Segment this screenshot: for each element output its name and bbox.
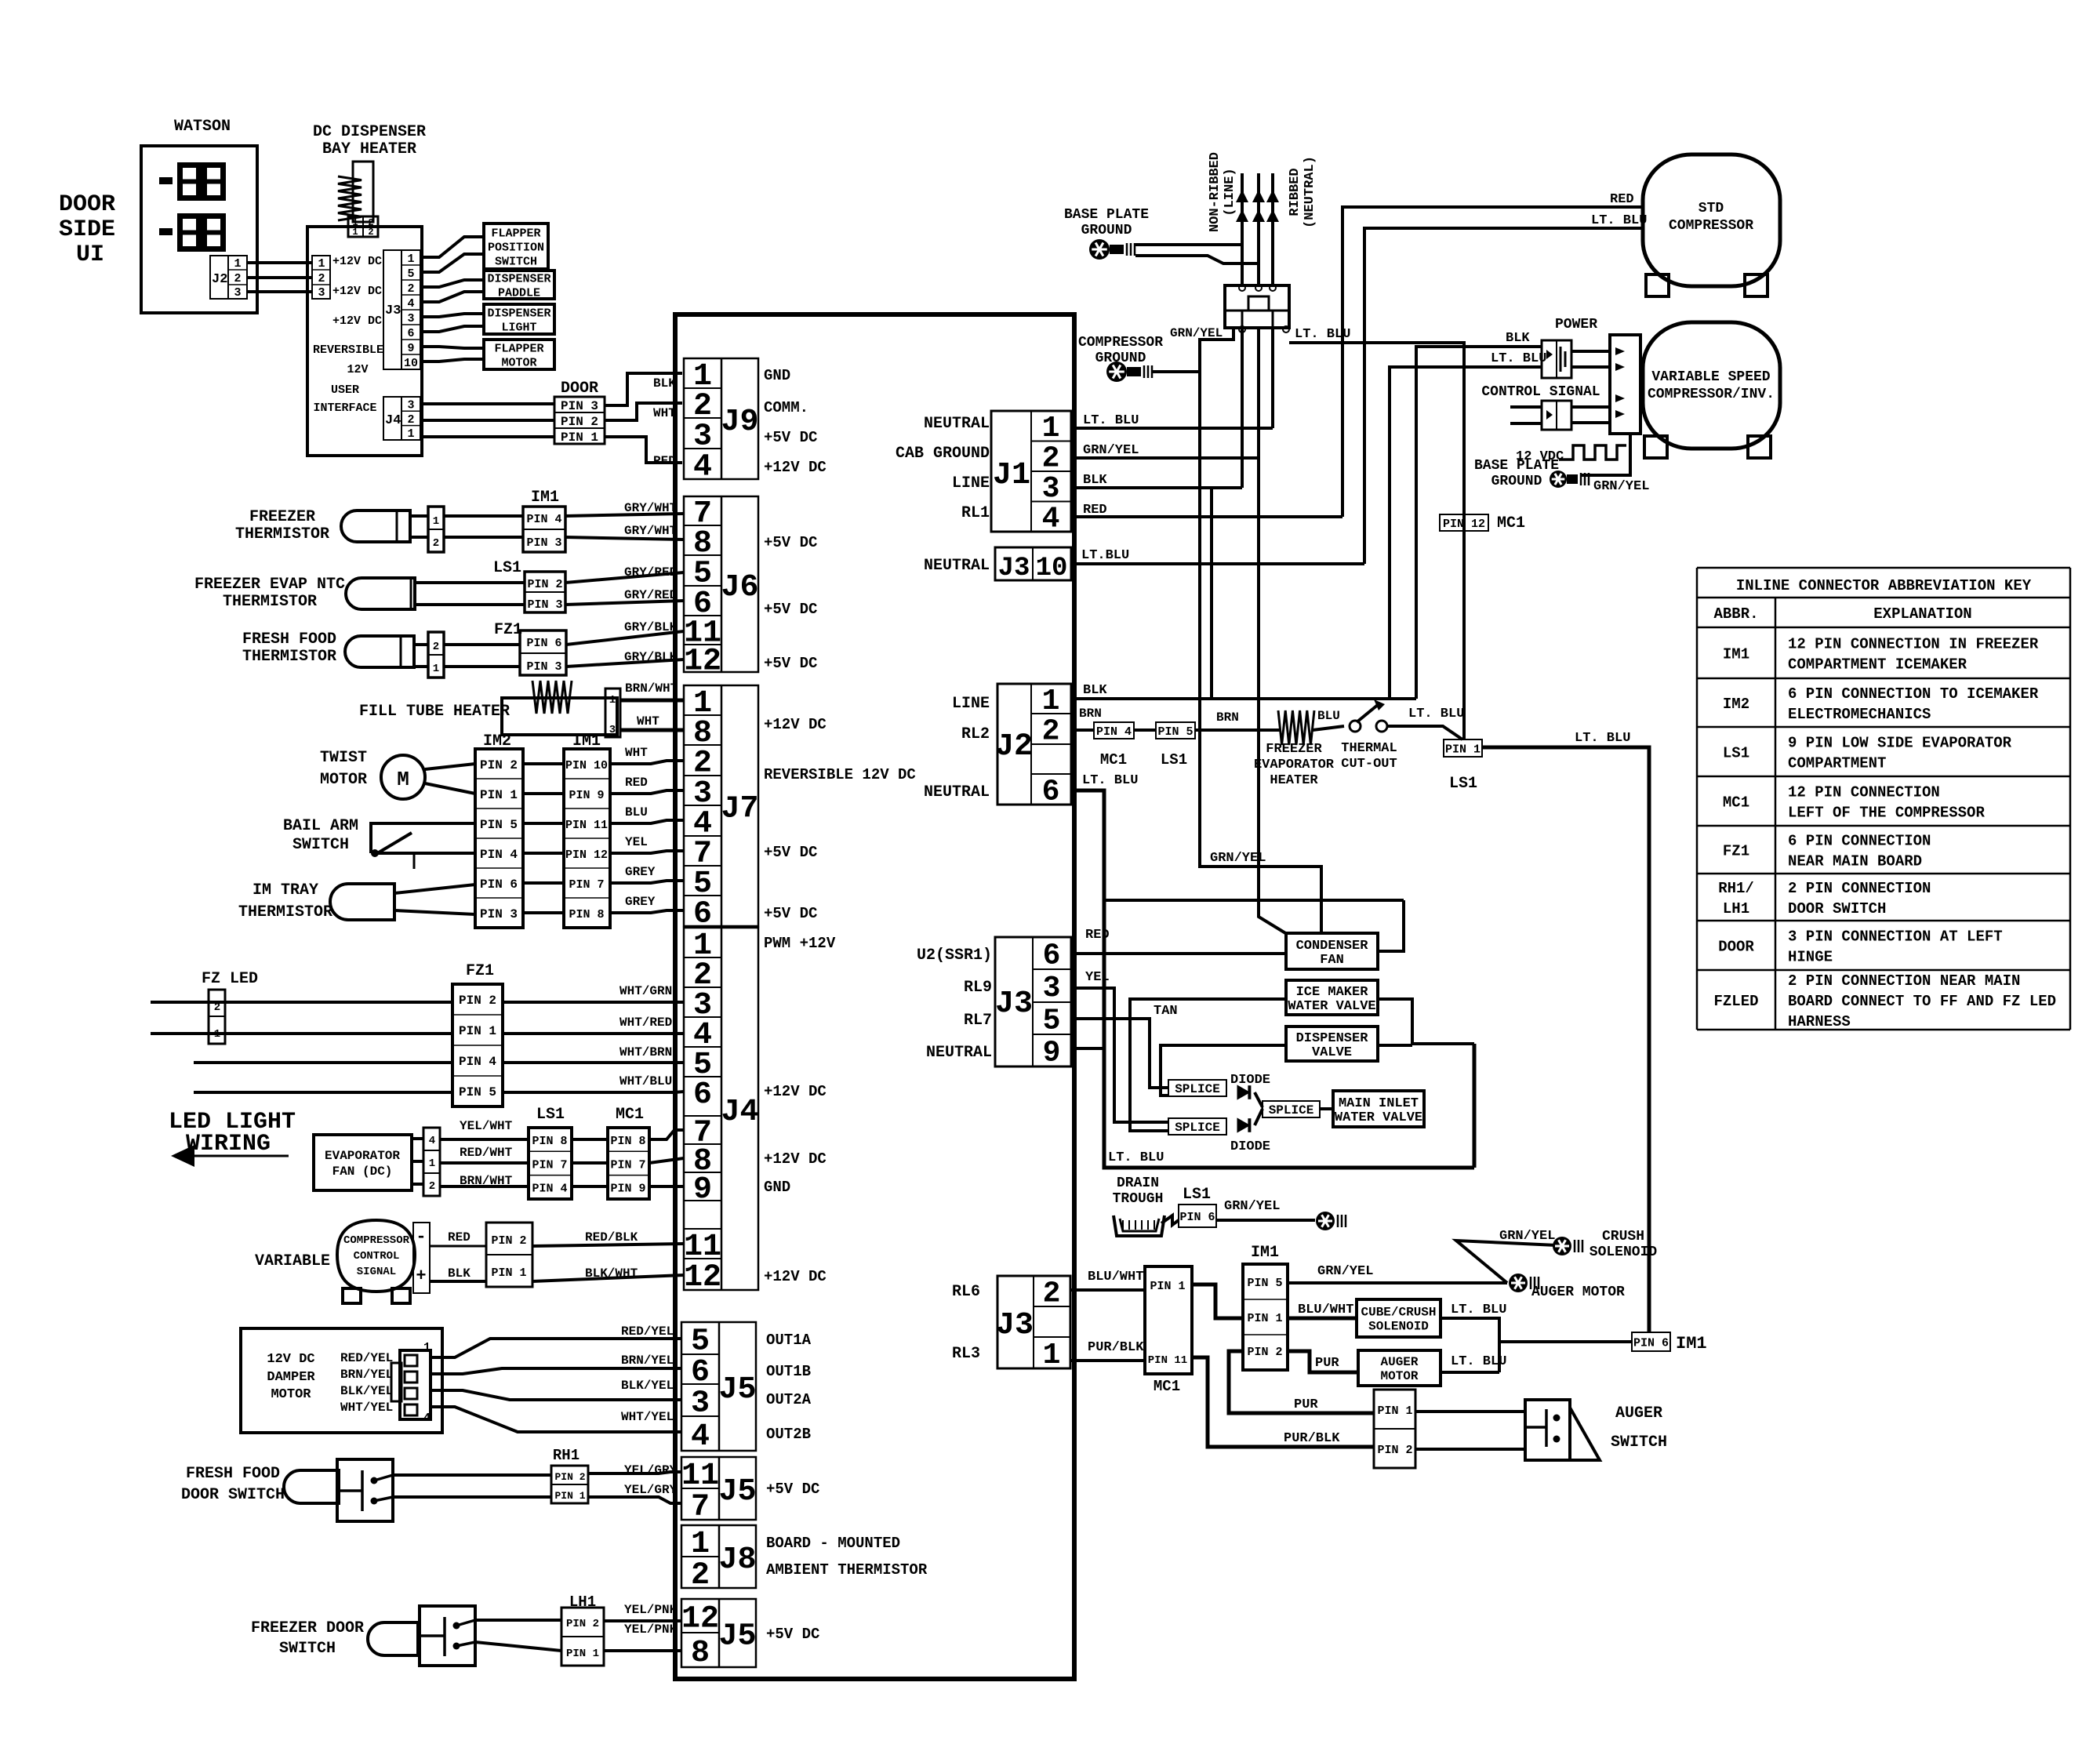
svg-text:1: 1 bbox=[423, 1341, 431, 1354]
svg-text:INLINE CONNECTOR ABBREVIATION: INLINE CONNECTOR ABBREVIATION KEY bbox=[1736, 577, 2032, 594]
svg-text:LT. BLU: LT. BLU bbox=[1108, 1150, 1164, 1165]
svg-text:DOOR SWITCH: DOOR SWITCH bbox=[1788, 900, 1886, 917]
svg-text:LT. BLU: LT. BLU bbox=[1451, 1354, 1506, 1369]
svg-text:PIN 10: PIN 10 bbox=[565, 759, 608, 772]
svg-text:+: + bbox=[416, 1266, 426, 1286]
svg-text:AUGER: AUGER bbox=[1380, 1355, 1418, 1369]
svg-text:1: 1 bbox=[234, 257, 241, 271]
svg-text:PIN 2: PIN 2 bbox=[561, 415, 598, 429]
svg-text:FRESH FOOD: FRESH FOOD bbox=[242, 630, 336, 649]
svg-text:PIN 7: PIN 7 bbox=[532, 1158, 567, 1172]
svg-text:CUBE/CRUSH: CUBE/CRUSH bbox=[1361, 1306, 1436, 1320]
svg-text:2: 2 bbox=[234, 272, 241, 285]
svg-text:7: 7 bbox=[691, 1490, 710, 1525]
svg-text:FZ1: FZ1 bbox=[466, 962, 494, 980]
svg-text:BASE PLATE: BASE PLATE bbox=[1474, 458, 1559, 474]
svg-text:DOOR: DOOR bbox=[59, 191, 115, 218]
svg-text:RL6: RL6 bbox=[952, 1283, 980, 1301]
svg-text:SOLENOID: SOLENOID bbox=[1368, 1320, 1429, 1334]
svg-text:GREY: GREY bbox=[625, 895, 656, 909]
svg-text:MAIN INLET: MAIN INLET bbox=[1339, 1096, 1419, 1111]
svg-text:IM1: IM1 bbox=[1723, 646, 1749, 663]
svg-text:WATER VALVE: WATER VALVE bbox=[1288, 999, 1375, 1014]
svg-text:RED: RED bbox=[1610, 192, 1634, 207]
svg-text:YEL/GRY: YEL/GRY bbox=[624, 1463, 678, 1477]
svg-text:J3: J3 bbox=[995, 987, 1033, 1022]
svg-text:ELECTROMECHANICS: ELECTROMECHANICS bbox=[1788, 706, 1931, 723]
svg-text:NEUTRAL: NEUTRAL bbox=[926, 1044, 992, 1062]
svg-text:J3: J3 bbox=[385, 303, 401, 318]
svg-text:GND: GND bbox=[764, 1179, 790, 1196]
svg-text:HARNESS: HARNESS bbox=[1788, 1013, 1851, 1030]
svg-text:J4: J4 bbox=[385, 413, 401, 428]
svg-text:12: 12 bbox=[684, 645, 721, 680]
svg-text:BLK: BLK bbox=[653, 376, 676, 391]
svg-text:BASE PLATE: BASE PLATE bbox=[1064, 207, 1149, 223]
svg-text:SWITCH: SWITCH bbox=[292, 836, 349, 854]
svg-text:PIN 2: PIN 2 bbox=[554, 1471, 585, 1483]
svg-text:4: 4 bbox=[1042, 503, 1060, 536]
svg-text:WHT/BRN: WHT/BRN bbox=[619, 1045, 672, 1059]
svg-text:SPLICE: SPLICE bbox=[1175, 1121, 1220, 1135]
svg-text:EVAPORATOR: EVAPORATOR bbox=[325, 1149, 400, 1163]
svg-text:3: 3 bbox=[234, 286, 241, 300]
svg-text:NEAR MAIN BOARD: NEAR MAIN BOARD bbox=[1788, 853, 1922, 870]
svg-text:YEL: YEL bbox=[625, 835, 648, 849]
svg-text:8: 8 bbox=[691, 1636, 710, 1671]
svg-text:BLU/WHT: BLU/WHT bbox=[1088, 1270, 1143, 1284]
svg-text:OUT2B: OUT2B bbox=[766, 1426, 811, 1443]
svg-text:YEL: YEL bbox=[1085, 970, 1110, 985]
svg-text:M: M bbox=[397, 768, 409, 791]
svg-text:DRAIN: DRAIN bbox=[1117, 1175, 1159, 1191]
svg-text:PIN 3: PIN 3 bbox=[526, 536, 561, 550]
svg-text:DOOR: DOOR bbox=[561, 380, 598, 398]
svg-text:GREY: GREY bbox=[625, 865, 656, 879]
svg-text:WATSON: WATSON bbox=[174, 118, 231, 136]
svg-text:RED/BLK: RED/BLK bbox=[585, 1230, 638, 1244]
svg-text:MC1: MC1 bbox=[1723, 794, 1749, 812]
svg-text:REVERSIBLE: REVERSIBLE bbox=[313, 343, 383, 357]
svg-text:PIN 2: PIN 2 bbox=[480, 758, 518, 772]
svg-text:LS1: LS1 bbox=[1723, 745, 1749, 762]
svg-text:SWITCH: SWITCH bbox=[1611, 1433, 1667, 1452]
svg-text:PIN 4: PIN 4 bbox=[480, 848, 518, 862]
svg-text:COMPRESSOR/INV.: COMPRESSOR/INV. bbox=[1648, 387, 1775, 402]
svg-text:+5V DC: +5V DC bbox=[764, 601, 817, 618]
svg-text:BLK: BLK bbox=[448, 1266, 471, 1281]
svg-text:6: 6 bbox=[1043, 939, 1061, 973]
svg-text:LT. BLU: LT. BLU bbox=[1491, 351, 1546, 366]
svg-text:2: 2 bbox=[407, 413, 414, 427]
svg-text:LS1: LS1 bbox=[1183, 1186, 1211, 1204]
svg-text:NEUTRAL: NEUTRAL bbox=[924, 783, 990, 801]
svg-text:GRN/YEL: GRN/YEL bbox=[1083, 443, 1139, 458]
svg-text:LS1: LS1 bbox=[1161, 751, 1187, 768]
svg-text:CONDENSER: CONDENSER bbox=[1296, 939, 1369, 954]
svg-text:2: 2 bbox=[318, 272, 325, 285]
svg-text:TWIST: TWIST bbox=[320, 749, 367, 767]
svg-text:WHT: WHT bbox=[637, 714, 659, 729]
svg-text:1: 1 bbox=[433, 515, 439, 528]
svg-text:+12V DC: +12V DC bbox=[764, 1268, 827, 1285]
svg-text:SPLICE: SPLICE bbox=[1175, 1082, 1220, 1096]
svg-text:PIN 8: PIN 8 bbox=[610, 1135, 645, 1148]
svg-text:FZ1: FZ1 bbox=[1723, 843, 1749, 860]
svg-text:6 PIN CONNECTION: 6 PIN CONNECTION bbox=[1788, 833, 1931, 850]
svg-text:THERMISTOR: THERMISTOR bbox=[223, 593, 317, 611]
svg-text:LH1: LH1 bbox=[1723, 900, 1749, 917]
svg-text:6: 6 bbox=[407, 327, 414, 340]
svg-text:PIN 4: PIN 4 bbox=[532, 1183, 567, 1196]
svg-text:10: 10 bbox=[1036, 554, 1068, 583]
svg-text:IM2: IM2 bbox=[1723, 696, 1749, 713]
svg-text:+5V DC: +5V DC bbox=[764, 655, 817, 672]
svg-text:MOTOR: MOTOR bbox=[320, 771, 367, 789]
svg-text:COMPRESSOR: COMPRESSOR bbox=[343, 1234, 410, 1247]
svg-text:6: 6 bbox=[693, 1077, 712, 1113]
svg-text:BRN/YEL: BRN/YEL bbox=[621, 1353, 674, 1368]
svg-text:WIRING: WIRING bbox=[186, 1131, 271, 1157]
svg-text:J6: J6 bbox=[721, 570, 758, 605]
svg-text:CONTROL SIGNAL: CONTROL SIGNAL bbox=[1481, 384, 1600, 400]
svg-text:LT. BLU: LT. BLU bbox=[1591, 213, 1647, 228]
svg-text:GRN/YEL: GRN/YEL bbox=[1224, 1199, 1280, 1214]
svg-text:WHT/BLU: WHT/BLU bbox=[619, 1074, 672, 1088]
svg-text:AUGER: AUGER bbox=[1615, 1404, 1662, 1423]
svg-text:YEL/PNK: YEL/PNK bbox=[624, 1622, 678, 1637]
svg-text:12V DC: 12V DC bbox=[267, 1352, 314, 1367]
svg-text:ABBR.: ABBR. bbox=[1713, 605, 1758, 623]
svg-text:GRN/YEL: GRN/YEL bbox=[1317, 1264, 1373, 1279]
svg-text:PIN 8: PIN 8 bbox=[532, 1135, 567, 1148]
svg-text:12: 12 bbox=[684, 1260, 721, 1295]
svg-text:RED: RED bbox=[448, 1230, 471, 1244]
svg-text:+12V DC: +12V DC bbox=[764, 716, 827, 733]
svg-text:PIN 6: PIN 6 bbox=[1179, 1211, 1215, 1224]
svg-text:+12V DC: +12V DC bbox=[764, 1150, 827, 1168]
svg-text:FRESH FOOD: FRESH FOOD bbox=[186, 1465, 280, 1483]
svg-text:DC DISPENSER: DC DISPENSER bbox=[313, 123, 426, 141]
svg-text:PIN 1: PIN 1 bbox=[1150, 1280, 1185, 1293]
svg-text:YEL/WHT: YEL/WHT bbox=[460, 1119, 513, 1133]
svg-text:BLU/WHT: BLU/WHT bbox=[1298, 1303, 1353, 1317]
svg-text:YEL/GRY: YEL/GRY bbox=[624, 1483, 678, 1497]
svg-text:NEUTRAL: NEUTRAL bbox=[924, 415, 990, 433]
svg-text:LT. BLU: LT. BLU bbox=[1082, 773, 1138, 788]
svg-text:PIN 1: PIN 1 bbox=[1377, 1404, 1412, 1418]
svg-text:CRUSH: CRUSH bbox=[1602, 1229, 1644, 1244]
svg-text:NEUTRAL: NEUTRAL bbox=[924, 557, 990, 575]
svg-text:PIN 2: PIN 2 bbox=[1377, 1444, 1412, 1457]
svg-text:J1: J1 bbox=[993, 458, 1030, 493]
svg-text:9: 9 bbox=[1043, 1037, 1061, 1070]
svg-text:GROUND: GROUND bbox=[1081, 223, 1132, 238]
svg-text:SPLICE: SPLICE bbox=[1269, 1103, 1314, 1117]
svg-text:PIN 1: PIN 1 bbox=[491, 1266, 526, 1280]
svg-text:J5: J5 bbox=[718, 1619, 756, 1655]
svg-text:SWITCH: SWITCH bbox=[279, 1640, 336, 1658]
svg-text:LT. BLU: LT. BLU bbox=[1083, 413, 1139, 428]
svg-text:CAB GROUND: CAB GROUND bbox=[896, 445, 990, 463]
svg-text:PIN 2: PIN 2 bbox=[566, 1618, 599, 1630]
svg-text:FAN (DC): FAN (DC) bbox=[332, 1165, 393, 1179]
svg-text:HEATER: HEATER bbox=[1270, 773, 1318, 788]
svg-text:DOOR: DOOR bbox=[1718, 939, 1754, 956]
svg-text:6: 6 bbox=[1042, 776, 1060, 809]
svg-text:RL9: RL9 bbox=[964, 979, 992, 997]
svg-text:1: 1 bbox=[407, 427, 414, 441]
svg-text:MOTOR: MOTOR bbox=[271, 1387, 311, 1402]
svg-text:PIN 11: PIN 11 bbox=[565, 819, 608, 832]
svg-text:U2(SSR1): U2(SSR1) bbox=[917, 947, 992, 965]
svg-text:RED/YEL: RED/YEL bbox=[621, 1324, 674, 1339]
svg-text:FREEZER EVAP NTC: FREEZER EVAP NTC bbox=[194, 576, 345, 594]
svg-text:RL2: RL2 bbox=[961, 725, 990, 743]
svg-text:1: 1 bbox=[433, 663, 439, 675]
svg-text:IM1: IM1 bbox=[1251, 1244, 1279, 1262]
svg-text:THERMISTOR: THERMISTOR bbox=[242, 648, 336, 666]
svg-text:5: 5 bbox=[407, 267, 414, 281]
svg-text:COMPRESSOR: COMPRESSOR bbox=[1669, 218, 1753, 234]
svg-text:RIBBED: RIBBED bbox=[1288, 168, 1303, 216]
svg-text:MC1: MC1 bbox=[1100, 751, 1127, 768]
svg-text:MC1: MC1 bbox=[616, 1106, 644, 1124]
svg-text:-: - bbox=[416, 1227, 426, 1247]
svg-text:PIN 5: PIN 5 bbox=[480, 818, 518, 832]
svg-text:PIN 1: PIN 1 bbox=[480, 788, 518, 802]
svg-text:WHT/YEL: WHT/YEL bbox=[621, 1410, 674, 1424]
svg-text:RL1: RL1 bbox=[961, 504, 990, 522]
svg-text:PIN 1: PIN 1 bbox=[561, 431, 598, 445]
svg-text:PIN 2: PIN 2 bbox=[1247, 1346, 1282, 1359]
svg-text:BOARD - MOUNTED: BOARD - MOUNTED bbox=[766, 1535, 900, 1552]
svg-text:+12V DC: +12V DC bbox=[332, 314, 382, 328]
svg-text:BAY HEATER: BAY HEATER bbox=[322, 140, 416, 158]
svg-text:3: 3 bbox=[407, 312, 414, 325]
svg-text:1: 1 bbox=[609, 694, 616, 707]
svg-text:FREEZER: FREEZER bbox=[249, 508, 315, 526]
svg-text:FILL TUBE HEATER: FILL TUBE HEATER bbox=[359, 703, 510, 721]
svg-text:LT. BLU: LT. BLU bbox=[1575, 731, 1630, 746]
svg-text:BLU: BLU bbox=[625, 805, 648, 819]
svg-text:PIN 1: PIN 1 bbox=[459, 1024, 496, 1038]
svg-text:BLK: BLK bbox=[1083, 473, 1107, 488]
svg-text:PIN 3: PIN 3 bbox=[526, 660, 561, 674]
svg-text:WHT: WHT bbox=[653, 406, 676, 420]
svg-text:COMPARTMENT ICEMAKER: COMPARTMENT ICEMAKER bbox=[1788, 656, 1967, 674]
svg-text:VARIABLE: VARIABLE bbox=[255, 1252, 330, 1270]
svg-text:LS1: LS1 bbox=[493, 559, 521, 577]
svg-text:9: 9 bbox=[693, 1172, 712, 1208]
svg-text:LINE: LINE bbox=[952, 474, 990, 492]
svg-text:PIN 1: PIN 1 bbox=[1445, 743, 1481, 756]
svg-text:DISPENSER: DISPENSER bbox=[487, 272, 550, 285]
svg-text:TAN: TAN bbox=[1154, 1004, 1178, 1019]
svg-text:+12V DC: +12V DC bbox=[764, 1083, 827, 1100]
svg-text:PIN 12: PIN 12 bbox=[565, 848, 608, 862]
svg-text:RED/WHT: RED/WHT bbox=[460, 1146, 513, 1160]
svg-text:4: 4 bbox=[429, 1135, 435, 1147]
svg-text:GND: GND bbox=[764, 367, 790, 384]
svg-text:1: 1 bbox=[429, 1157, 435, 1170]
svg-text:PIN 3: PIN 3 bbox=[561, 399, 598, 413]
svg-text:1: 1 bbox=[1043, 1339, 1061, 1372]
svg-text:LINE: LINE bbox=[952, 695, 990, 713]
svg-text:IM1: IM1 bbox=[1676, 1334, 1707, 1353]
svg-text:INTERFACE: INTERFACE bbox=[313, 402, 376, 415]
svg-text:DISPENSER: DISPENSER bbox=[487, 307, 550, 320]
svg-text:PIN 2: PIN 2 bbox=[459, 994, 496, 1008]
svg-text:MC1: MC1 bbox=[1154, 1378, 1180, 1395]
svg-text:FZ LED: FZ LED bbox=[202, 970, 258, 988]
svg-text:J8: J8 bbox=[718, 1542, 756, 1578]
svg-text:PIN 5: PIN 5 bbox=[1157, 725, 1193, 739]
svg-text:ICE MAKER: ICE MAKER bbox=[1296, 985, 1369, 1000]
svg-text:2: 2 bbox=[368, 227, 373, 238]
svg-text:3: 3 bbox=[1043, 972, 1061, 1005]
svg-text:J2: J2 bbox=[212, 272, 227, 287]
svg-text:TROUGH: TROUGH bbox=[1113, 1191, 1164, 1207]
svg-text:LT.BLU: LT.BLU bbox=[1081, 548, 1129, 563]
svg-text:BAIL ARM: BAIL ARM bbox=[283, 817, 358, 835]
svg-text:WHT/GRN: WHT/GRN bbox=[619, 984, 672, 998]
svg-text:BLK/YEL: BLK/YEL bbox=[340, 1384, 393, 1398]
svg-text:PUR/BLK: PUR/BLK bbox=[1284, 1431, 1340, 1446]
svg-text:+12V DC: +12V DC bbox=[764, 459, 827, 476]
svg-text:GRY/WHT: GRY/WHT bbox=[624, 524, 678, 538]
svg-text:FZ1: FZ1 bbox=[494, 621, 522, 639]
svg-text:PIN 9: PIN 9 bbox=[569, 789, 604, 802]
svg-text:2 PIN CONNECTION: 2 PIN CONNECTION bbox=[1788, 880, 1931, 897]
svg-text:PIN 7: PIN 7 bbox=[569, 878, 604, 892]
svg-text:PIN 6: PIN 6 bbox=[1633, 1336, 1669, 1350]
svg-text:POWER: POWER bbox=[1555, 317, 1597, 332]
svg-text:1: 1 bbox=[407, 253, 414, 266]
svg-text:SIGNAL: SIGNAL bbox=[357, 1266, 396, 1278]
svg-text:IM1: IM1 bbox=[531, 489, 559, 507]
svg-text:RH1/: RH1/ bbox=[1718, 880, 1754, 897]
svg-text:BRN: BRN bbox=[1079, 707, 1102, 721]
svg-text:LT. BLU: LT. BLU bbox=[1408, 707, 1464, 721]
svg-text:PIN 5: PIN 5 bbox=[459, 1085, 496, 1099]
svg-text:RED: RED bbox=[1085, 928, 1110, 943]
svg-text:THERMAL: THERMAL bbox=[1341, 741, 1397, 756]
svg-text:9 PIN LOW SIDE EVAPORATOR: 9 PIN LOW SIDE EVAPORATOR bbox=[1788, 735, 2012, 752]
svg-text:GRN/YEL: GRN/YEL bbox=[1593, 479, 1649, 494]
svg-text:POSITION: POSITION bbox=[488, 241, 544, 254]
svg-text:FAN: FAN bbox=[1320, 953, 1344, 968]
svg-text:BOARD CONNECT TO FF AND FZ LED: BOARD CONNECT TO FF AND FZ LED bbox=[1788, 993, 2056, 1010]
svg-text:12V: 12V bbox=[347, 363, 368, 376]
svg-text:HINGE: HINGE bbox=[1788, 949, 1833, 966]
svg-text:PUR/BLK: PUR/BLK bbox=[1088, 1340, 1144, 1355]
svg-text:12: 12 bbox=[681, 1602, 719, 1637]
svg-text:BLK: BLK bbox=[1083, 683, 1107, 698]
svg-text:RL7: RL7 bbox=[964, 1012, 992, 1030]
svg-text:4: 4 bbox=[693, 450, 712, 485]
svg-text:DAMPER: DAMPER bbox=[267, 1370, 315, 1385]
svg-text:EVAPORATOR: EVAPORATOR bbox=[1254, 758, 1335, 772]
svg-text:LT. BLU: LT. BLU bbox=[1451, 1303, 1506, 1317]
svg-text:J5: J5 bbox=[718, 1474, 756, 1510]
svg-text:BRN: BRN bbox=[1216, 710, 1239, 725]
svg-text:1: 1 bbox=[352, 227, 358, 238]
svg-text:VALVE: VALVE bbox=[1312, 1045, 1352, 1060]
svg-text:DISPENSER: DISPENSER bbox=[1296, 1031, 1369, 1046]
svg-text:FREEZER DOOR: FREEZER DOOR bbox=[251, 1619, 364, 1637]
svg-text:BLK/YEL: BLK/YEL bbox=[621, 1379, 674, 1393]
svg-text:GRN/YEL: GRN/YEL bbox=[1499, 1229, 1555, 1244]
svg-text:PIN 2: PIN 2 bbox=[491, 1234, 526, 1248]
svg-text:VARIABLE SPEED: VARIABLE SPEED bbox=[1651, 369, 1770, 385]
svg-text:2: 2 bbox=[429, 1180, 435, 1193]
svg-text:PIN 1: PIN 1 bbox=[566, 1648, 599, 1660]
svg-text:PWM +12V: PWM +12V bbox=[764, 935, 836, 952]
svg-text:3 PIN CONNECTION AT LEFT: 3 PIN CONNECTION AT LEFT bbox=[1788, 928, 2003, 946]
svg-text:RED/YEL: RED/YEL bbox=[340, 1351, 393, 1365]
svg-text:FLAPPER: FLAPPER bbox=[494, 342, 543, 355]
svg-text:WHT/RED: WHT/RED bbox=[619, 1016, 672, 1030]
svg-text:6 PIN CONNECTION TO ICEMAKER: 6 PIN CONNECTION TO ICEMAKER bbox=[1788, 685, 2039, 703]
svg-text:BLU: BLU bbox=[1317, 709, 1340, 723]
svg-text:THERMISTOR: THERMISTOR bbox=[238, 903, 332, 921]
svg-text:FLAPPER: FLAPPER bbox=[491, 227, 540, 240]
svg-text:9: 9 bbox=[407, 342, 414, 355]
svg-text:BRN/YEL: BRN/YEL bbox=[340, 1368, 393, 1382]
svg-text:PIN 6: PIN 6 bbox=[526, 637, 561, 650]
svg-text:DOOR SWITCH: DOOR SWITCH bbox=[181, 1486, 285, 1504]
svg-text:J7: J7 bbox=[721, 792, 758, 827]
svg-text:EXPLANATION: EXPLANATION bbox=[1873, 605, 1971, 623]
svg-text:FREEZER: FREEZER bbox=[1266, 742, 1322, 757]
svg-text:COMPRESSOR: COMPRESSOR bbox=[1078, 335, 1163, 351]
svg-text:4: 4 bbox=[423, 1412, 431, 1425]
svg-text:BLK: BLK bbox=[1506, 331, 1530, 346]
svg-text:4: 4 bbox=[407, 297, 414, 311]
svg-text:STD: STD bbox=[1699, 201, 1724, 216]
svg-text:J2: J2 bbox=[995, 729, 1033, 765]
svg-text:PIN 11: PIN 11 bbox=[1148, 1354, 1187, 1367]
svg-text:4: 4 bbox=[691, 1419, 710, 1455]
svg-text:RL3: RL3 bbox=[952, 1345, 980, 1363]
svg-text:AMBIENT THERMISTOR: AMBIENT THERMISTOR bbox=[766, 1561, 928, 1579]
svg-text:2: 2 bbox=[433, 537, 439, 550]
svg-text:PIN 12: PIN 12 bbox=[1443, 518, 1485, 531]
svg-text:THERMISTOR: THERMISTOR bbox=[235, 525, 329, 543]
svg-text:CUT-OUT: CUT-OUT bbox=[1341, 757, 1397, 772]
svg-text:MOTOR: MOTOR bbox=[1380, 1369, 1418, 1383]
svg-text:MOTOR: MOTOR bbox=[501, 356, 536, 369]
svg-text:OUT1B: OUT1B bbox=[766, 1363, 811, 1380]
svg-text:DIODE: DIODE bbox=[1230, 1139, 1270, 1154]
svg-text:J4: J4 bbox=[721, 1095, 758, 1130]
svg-text:SIDE: SIDE bbox=[59, 216, 115, 243]
svg-text:NON-RIBBED: NON-RIBBED bbox=[1208, 152, 1223, 232]
svg-text:3: 3 bbox=[407, 399, 414, 412]
svg-text:PADDLE: PADDLE bbox=[498, 286, 540, 300]
svg-text:+5V DC: +5V DC bbox=[764, 905, 817, 922]
svg-text:COMM.: COMM. bbox=[764, 399, 808, 416]
svg-text:2: 2 bbox=[407, 282, 414, 296]
svg-text:BRN/WHT: BRN/WHT bbox=[625, 681, 678, 696]
svg-text:PIN 9: PIN 9 bbox=[610, 1183, 645, 1196]
svg-text:2: 2 bbox=[433, 641, 439, 653]
svg-text:USER: USER bbox=[331, 383, 359, 397]
svg-text:+5V DC: +5V DC bbox=[764, 429, 817, 446]
svg-text:LIGHT: LIGHT bbox=[501, 321, 536, 334]
svg-text:IM TRAY: IM TRAY bbox=[253, 881, 318, 899]
